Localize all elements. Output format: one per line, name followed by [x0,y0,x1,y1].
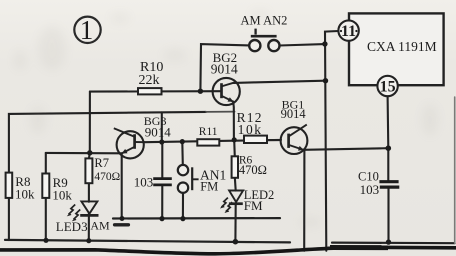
svg-text:103: 103 [360,182,380,197]
svg-text:LED3: LED3 [56,219,88,234]
svg-text:15: 15 [380,79,396,96]
svg-text:9014: 9014 [211,61,238,76]
svg-text:CXA 1191M: CXA 1191M [367,39,437,54]
svg-text:10k: 10k [238,122,263,137]
svg-text:9014: 9014 [145,125,172,140]
svg-text:R11: R11 [199,126,218,138]
svg-text:470Ω: 470Ω [239,163,267,177]
svg-text:10k: 10k [52,188,72,203]
svg-text:103: 103 [134,175,154,190]
svg-text:1: 1 [80,15,94,45]
svg-text:AM: AM [90,218,110,232]
svg-text:9014: 9014 [281,107,307,121]
svg-text:10k: 10k [15,187,35,202]
svg-text:R7: R7 [94,156,109,170]
svg-text:11: 11 [341,23,356,40]
svg-text:FM: FM [244,198,263,213]
svg-text:470Ω: 470Ω [94,171,120,183]
svg-text:22k: 22k [139,73,160,88]
svg-text:FM: FM [200,180,218,194]
